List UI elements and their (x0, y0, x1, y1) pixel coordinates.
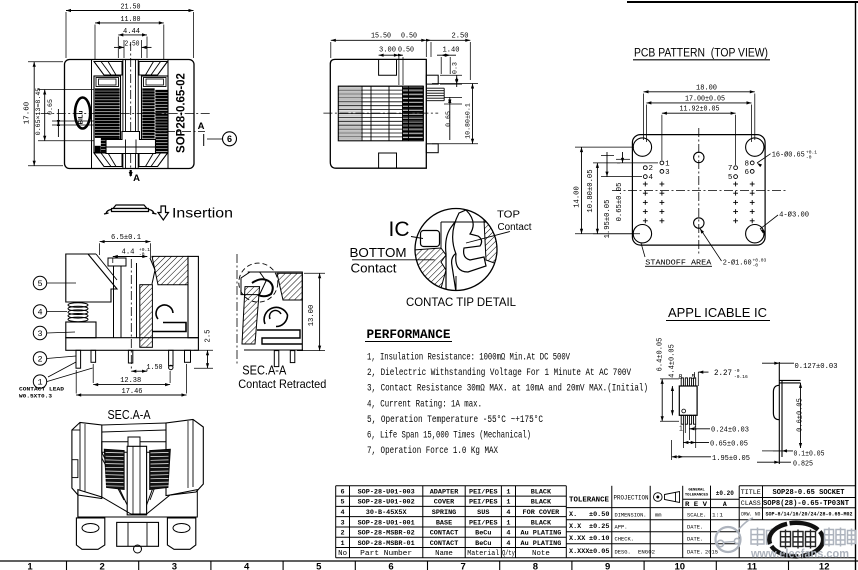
svg-text:2, Dielectric Withstanding Vol: 2, Dielectric Withstanding Voltage For 1… (367, 367, 632, 379)
svg-text:BeCu: BeCu (475, 530, 491, 538)
svg-text:FOR COVER: FOR COVER (523, 509, 561, 517)
svg-text:CLASS: CLASS (741, 500, 761, 507)
svg-text:5: 5 (728, 174, 733, 182)
svg-text:DIMENSION.: DIMENSION. (615, 513, 647, 519)
svg-text:A: A (723, 501, 727, 508)
svg-text:BLACK: BLACK (531, 519, 552, 527)
svg-text:9: 9 (605, 562, 610, 570)
svg-text:0.65×13=8.45: 0.65×13=8.45 (35, 88, 42, 136)
svg-text:0.65: 0.65 (445, 111, 452, 127)
svg-text:DATE.: DATE. (687, 525, 703, 531)
svg-text:±0.25: ±0.25 (589, 523, 609, 531)
svg-text:mm: mm (655, 513, 661, 519)
svg-text:±0.50: ±0.50 (589, 511, 609, 519)
svg-text:5: 5 (341, 499, 345, 507)
svg-text:6, Life Span 15,000 Times (Mec: 6, Life Span 15,000 Times (Mechanical) (367, 430, 531, 442)
svg-text:1: 1 (506, 499, 510, 507)
svg-text:SEC.A-A: SEC.A-A (242, 364, 287, 378)
svg-text:5: 5 (316, 562, 322, 570)
svg-text:SOP-28-U01-001: SOP-28-U01-001 (358, 519, 415, 527)
svg-text:1.95±0.05: 1.95±0.05 (604, 200, 612, 239)
svg-text:-0: -0 (734, 368, 740, 374)
svg-text:Au PLATING: Au PLATING (521, 530, 562, 538)
svg-text:0.3: 0.3 (452, 62, 459, 74)
svg-text:Note: Note (532, 550, 550, 558)
svg-text:±0.10: ±0.10 (589, 535, 609, 543)
svg-text:DESG.: DESG. (615, 550, 631, 556)
svg-text:12: 12 (819, 562, 830, 570)
svg-text:11: 11 (747, 562, 758, 570)
svg-text:SOP-28-U01-003: SOP-28-U01-003 (358, 488, 415, 496)
svg-text:SOP-8/14/16/20/24/28-0.65-M02: SOP-8/14/16/20/24/28-0.65-M02 (766, 510, 854, 517)
svg-text:1: 1 (27, 562, 33, 570)
svg-text:1: 1 (506, 488, 510, 496)
svg-text:0.1±0.05: 0.1±0.05 (794, 451, 825, 459)
svg-text:12.38: 12.38 (120, 377, 141, 385)
svg-text:6: 6 (227, 134, 232, 144)
svg-text:4: 4 (506, 509, 510, 517)
svg-text:10.80±0.1: 10.80±0.1 (464, 103, 471, 139)
svg-text:SCALE.: SCALE. (687, 513, 706, 519)
svg-text:15.50: 15.50 (371, 32, 391, 40)
svg-text:APPL ICABLE IC: APPL ICABLE IC (668, 305, 767, 320)
svg-text:8: 8 (679, 374, 683, 381)
svg-text:Au PLATING: Au PLATING (521, 540, 562, 548)
svg-text:APP.: APP. (615, 525, 628, 531)
svg-text:10.80±0.05: 10.80±0.05 (587, 169, 595, 212)
svg-text:SOP-28-U01-002: SOP-28-U01-002 (358, 499, 415, 507)
svg-text:4: 4 (506, 530, 510, 538)
svg-text:BOTTOM: BOTTOM (350, 245, 407, 260)
svg-text:Q/ty: Q/ty (502, 550, 515, 558)
svg-text:-0.16: -0.16 (734, 374, 748, 380)
svg-text:CONTAC TIP DETAIL: CONTAC TIP DETAIL (406, 297, 517, 309)
svg-text:0.65±0.05: 0.65±0.05 (710, 441, 748, 449)
svg-text:SOP28-0.65 SOCKET: SOP28-0.65 SOCKET (773, 489, 845, 497)
svg-text:ADAPTER: ADAPTER (430, 488, 459, 496)
svg-text:PEI/PES: PEI/PES (469, 499, 498, 507)
svg-text:ENG02: ENG02 (638, 550, 655, 556)
svg-text:4: 4 (649, 174, 654, 182)
svg-text:-0: -0 (753, 263, 759, 269)
svg-text:BASE: BASE (436, 519, 452, 527)
svg-text:2: 2 (37, 354, 42, 364)
svg-text:X.XXX: X.XXX (569, 548, 590, 556)
svg-text:PERFORMANCE: PERFORMANCE (367, 327, 451, 342)
svg-text:2: 2 (649, 165, 654, 173)
svg-text:TOLERANCES: TOLERANCES (685, 493, 709, 497)
svg-text:BLACK: BLACK (531, 488, 552, 496)
svg-text:1.50: 1.50 (147, 364, 163, 372)
svg-text:SEC.A-A: SEC.A-A (108, 408, 152, 422)
svg-text:4-Ø3.00: 4-Ø3.00 (779, 211, 809, 220)
svg-text:SPRING: SPRING (432, 509, 456, 517)
svg-text:TOP: TOP (497, 210, 520, 221)
svg-text:CONTACT: CONTACT (430, 530, 459, 538)
svg-text:3: 3 (341, 519, 345, 527)
svg-text:0.65: 0.65 (47, 99, 54, 115)
svg-text:Material: Material (467, 550, 500, 558)
svg-text:Contact: Contact (498, 222, 532, 233)
svg-text:2.27: 2.27 (714, 370, 732, 378)
svg-text:7: 7 (728, 165, 733, 173)
svg-text:2.50: 2.50 (125, 41, 140, 49)
svg-text:CONTACT LEAD: CONTACT LEAD (19, 386, 65, 393)
svg-text:4: 4 (506, 540, 510, 548)
svg-text:2.5: 2.5 (205, 330, 213, 343)
svg-text:BLACK: BLACK (531, 499, 552, 507)
svg-text:A: A (198, 121, 205, 132)
svg-text:11.92±0.05: 11.92±0.05 (680, 106, 720, 114)
svg-text:10: 10 (675, 562, 686, 570)
svg-text:TOLERANCE: TOLERANCE (569, 497, 610, 505)
svg-text:4: 4 (244, 562, 250, 570)
svg-text:3: 3 (665, 169, 670, 177)
svg-text:0.50: 0.50 (401, 32, 417, 40)
svg-text:0.24±0.03: 0.24±0.03 (711, 427, 749, 435)
svg-text:4, Current Rating: 1A max.: 4, Current Rating: 1A max. (367, 398, 482, 410)
svg-text:±0.05: ±0.05 (589, 548, 609, 556)
svg-text:Part Number: Part Number (360, 550, 412, 558)
svg-text:13.00: 13.00 (308, 305, 316, 327)
svg-text:SUS: SUS (477, 509, 489, 517)
svg-text:1.40: 1.40 (443, 46, 460, 54)
svg-text:17.00±0.05: 17.00±0.05 (685, 95, 725, 103)
svg-text:1:1: 1:1 (712, 513, 723, 519)
svg-text:SOP28-0.65-02: SOP28-0.65-02 (176, 73, 188, 153)
svg-text:No: No (338, 550, 347, 558)
svg-text:6.5±0.1: 6.5±0.1 (111, 234, 141, 242)
svg-text:16-Ø0.65: 16-Ø0.65 (772, 151, 805, 160)
svg-text:1.95±0.05: 1.95±0.05 (712, 455, 750, 463)
svg-text:2: 2 (341, 530, 345, 538)
svg-text:GENERAL: GENERAL (688, 489, 705, 493)
svg-text:0.50: 0.50 (398, 46, 414, 54)
svg-text:17.60: 17.60 (24, 101, 32, 124)
svg-text:6: 6 (744, 169, 749, 177)
svg-text:X.X: X.X (569, 523, 582, 531)
svg-text:8: 8 (533, 562, 538, 570)
svg-text:1: 1 (665, 160, 670, 168)
svg-text:6: 6 (388, 562, 393, 570)
svg-text:BiLu: BiLu (78, 110, 85, 124)
svg-text:IC: IC (389, 218, 410, 241)
svg-text:R E V: R E V (685, 501, 707, 508)
svg-text:3.00: 3.00 (379, 46, 396, 54)
svg-text:3: 3 (37, 329, 42, 339)
svg-text:SOP-28-MSBR-02: SOP-28-MSBR-02 (358, 530, 415, 538)
svg-text:CHECK.: CHECK. (615, 537, 634, 543)
svg-text:1, Insulation Resistance: 1000: 1, Insulation Resistance: 1000mΩ Min.At … (367, 352, 571, 364)
svg-text:-0: -0 (806, 155, 812, 161)
svg-text:6.4±0.05: 6.4±0.05 (657, 338, 665, 372)
svg-text:4: 4 (341, 509, 345, 517)
svg-text:4.4: 4.4 (122, 248, 135, 256)
svg-text:0.65±0.05: 0.65±0.05 (616, 183, 624, 222)
svg-text:Contact Retracted: Contact Retracted (238, 377, 326, 391)
svg-text:1: 1 (506, 519, 510, 527)
svg-text:A: A (133, 173, 140, 184)
svg-text:7: 7 (461, 562, 466, 570)
svg-text:SOP-28-MSBR-01: SOP-28-MSBR-01 (358, 540, 415, 548)
svg-text:Contact: Contact (351, 261, 397, 276)
svg-text:1: 1 (679, 426, 683, 433)
svg-text:30-B-45X5X: 30-B-45X5X (366, 509, 408, 517)
svg-text:DATE.: DATE. (687, 550, 703, 556)
svg-text:PEI/PES: PEI/PES (469, 488, 498, 496)
svg-text:14.00: 14.00 (574, 186, 582, 208)
svg-text:TITLE: TITLE (741, 489, 761, 496)
svg-text:DATE.: DATE. (687, 537, 703, 543)
svg-text:BeCu: BeCu (475, 540, 491, 548)
svg-text:1: 1 (341, 540, 345, 548)
svg-text:2: 2 (100, 562, 105, 570)
svg-text:5, Operation Temperature -55°C: 5, Operation Temperature -55°C ~+175°C (367, 414, 543, 426)
svg-text:X.: X. (569, 511, 577, 519)
svg-text:X.XX: X.XX (569, 535, 586, 543)
svg-text:4.4±0.05: 4.4±0.05 (669, 344, 677, 378)
svg-text:4: 4 (37, 307, 42, 317)
svg-text:0.825: 0.825 (793, 460, 813, 468)
svg-text:SOP8(28)-0.65-TP03NT: SOP8(28)-0.65-TP03NT (763, 500, 849, 508)
svg-text:±0.20: ±0.20 (716, 490, 734, 497)
svg-text:W0.5XT0.3: W0.5XT0.3 (19, 393, 53, 400)
svg-text:8: 8 (744, 160, 749, 168)
svg-text:Insertion: Insertion (172, 205, 233, 221)
svg-text:7, Operation Force 1.0 Kg MAX: 7, Operation Force 1.0 Kg MAX (367, 445, 498, 457)
svg-text:DRW. NO: DRW. NO (741, 512, 760, 518)
svg-text:Name: Name (435, 550, 453, 558)
svg-text:COVER: COVER (434, 499, 455, 507)
svg-text:PROJECTION: PROJECTION (614, 495, 649, 502)
svg-text:PEI/PES: PEI/PES (469, 519, 498, 527)
svg-text:www.elecfans.com: www.elecfans.com (750, 549, 849, 561)
svg-text:6: 6 (341, 488, 345, 496)
svg-text:18.00: 18.00 (696, 84, 717, 92)
svg-text:3, Contact Resistance 30mΩ MAX: 3, Contact Resistance 30mΩ MAX. at 10mA … (367, 383, 648, 395)
svg-text:3: 3 (172, 562, 177, 570)
svg-text:2015: 2015 (705, 550, 718, 556)
svg-text:2-Ø1.60: 2-Ø1.60 (723, 258, 752, 267)
svg-text:PCB PATTERN (TOP VIEW): PCB PATTERN (TOP VIEW) (634, 46, 768, 60)
svg-text:0.127±0.03: 0.127±0.03 (795, 363, 838, 371)
svg-text:5: 5 (37, 279, 42, 289)
svg-text:CONTACT: CONTACT (430, 540, 459, 548)
